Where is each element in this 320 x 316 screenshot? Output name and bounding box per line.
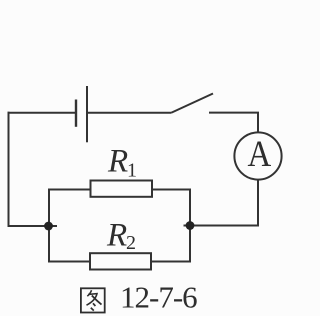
resistor R1 box <box>91 181 153 197</box>
svg-text:2: 2 <box>126 232 136 254</box>
battery G short plate <box>75 100 77 127</box>
node left junction <box>44 222 53 231</box>
svg-text:12-7-6: 12-7-6 <box>120 280 197 315</box>
wire R1 right <box>152 189 190 191</box>
wire R2 left <box>49 261 90 263</box>
ammeter A1 circle <box>234 132 281 179</box>
wire right branch vertical <box>189 189 191 263</box>
wire right rail top <box>257 113 259 133</box>
caption 图 glyph <box>81 288 105 312</box>
wire bottom left <box>9 225 58 227</box>
wire bottom right <box>184 225 260 227</box>
svg-text:A: A <box>247 133 271 174</box>
wire left rail <box>8 112 10 227</box>
battery G long plate <box>86 86 88 142</box>
svg-text:R: R <box>107 144 128 180</box>
svg-text:R: R <box>106 218 127 254</box>
wire top left <box>8 112 77 114</box>
node right junction <box>186 221 195 230</box>
wire R2 right <box>151 261 190 263</box>
wire left branch vertical <box>48 189 50 263</box>
wire R1 left <box>49 189 91 191</box>
wire switch to corner <box>209 112 259 114</box>
switch S1 <box>172 94 214 113</box>
wire right rail bottom <box>257 179 259 226</box>
wire battery to switch <box>87 112 172 114</box>
resistor R2 box <box>90 253 151 269</box>
svg-text:1: 1 <box>127 160 137 182</box>
